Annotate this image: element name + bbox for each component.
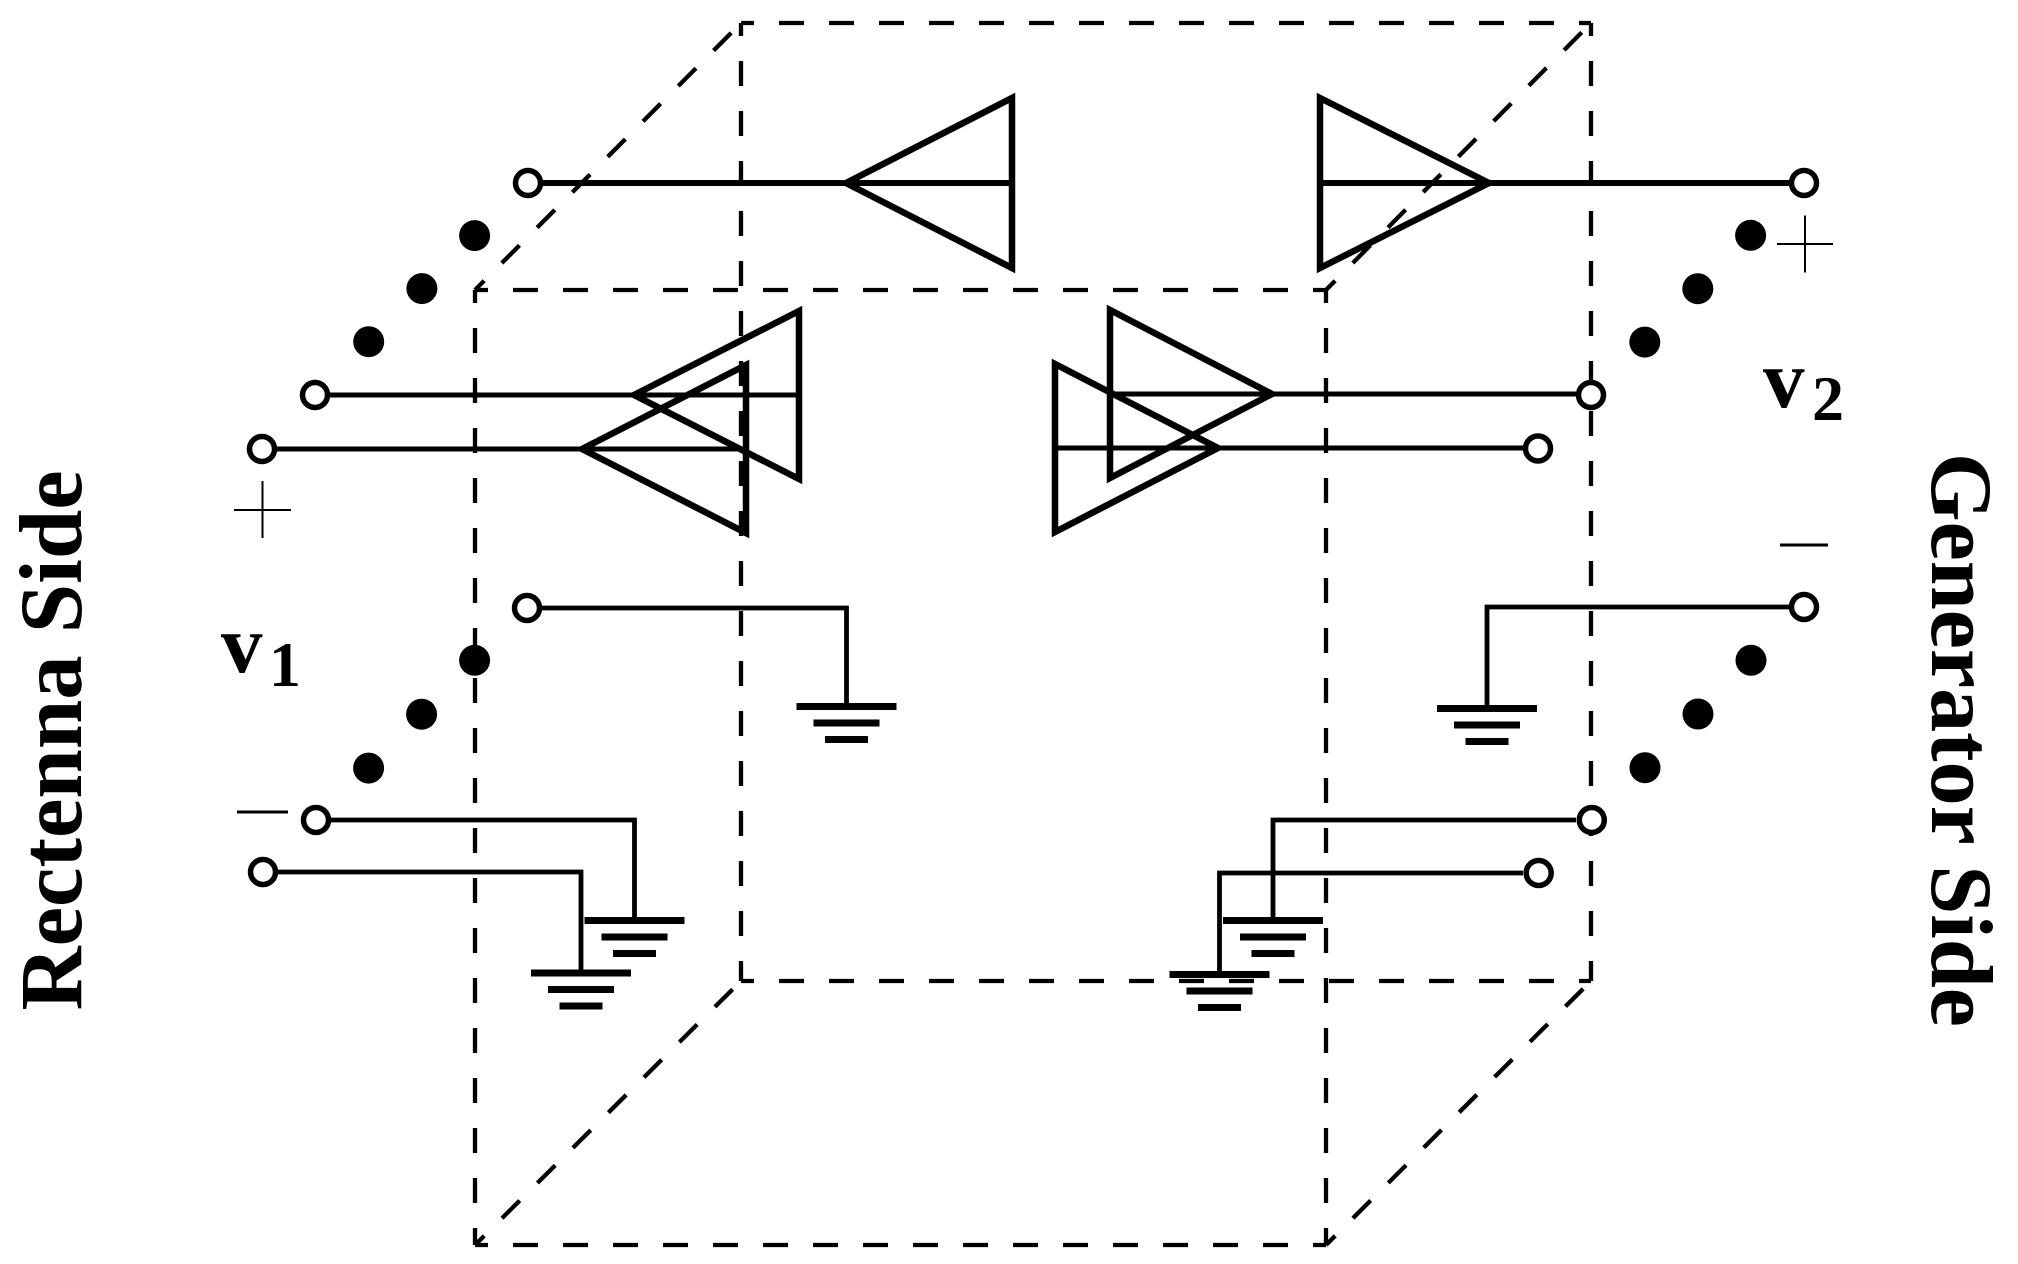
ground (bottom left inner)	[531, 970, 631, 1010]
svg-text:1: 1	[269, 629, 301, 700]
continuation dots: left bottom	[353, 645, 490, 784]
label: + (v2 positive)	[1777, 216, 1833, 273]
wire: bottom right inner	[1220, 873, 1524, 971]
terminal: bottom right inner	[1526, 861, 1551, 886]
ground (bottom right outer)	[1223, 917, 1323, 957]
svg-text:2: 2	[1812, 363, 1844, 434]
buffer A6 (middle right lower, points right)	[1055, 364, 1218, 532]
dashed box edge: top-left diagonal	[475, 23, 741, 290]
label: - (v1 negative)	[237, 811, 288, 814]
label: - (v2 negative)	[1780, 544, 1828, 547]
wire: top row right	[1320, 180, 1789, 186]
ground (right inner)	[1437, 705, 1537, 745]
ground (left inner)	[797, 703, 897, 743]
wire: left ground feed	[542, 608, 847, 703]
terminal: top right (+ of v2)	[1792, 171, 1817, 196]
continuation dots: left top	[353, 220, 490, 357]
dashed box edge: top-right diagonal	[1326, 23, 1591, 290]
wire: middle row upper left	[330, 393, 799, 398]
dashed box edge: front right	[1324, 290, 1328, 1245]
label: + (v1 positive)	[234, 481, 291, 538]
continuation dots: right top	[1629, 220, 1766, 358]
dashed box edge: bottom-left diagonal	[475, 981, 741, 1245]
terminal: middle left lower	[250, 437, 275, 462]
wire: middle row lower right	[1055, 446, 1523, 451]
dashed box edge: front bottom	[475, 1243, 1326, 1247]
dashed box edge: back right	[1589, 23, 1593, 981]
buffer A4 (middle left lower, points left)	[582, 365, 746, 533]
dashed box edge: back left	[739, 23, 743, 981]
terminal: top left	[516, 171, 541, 196]
dashed box edge: front left	[473, 290, 477, 1245]
label: v1	[221, 598, 301, 700]
dashed box edge: bottom-right diagonal	[1326, 981, 1591, 1245]
terminal: left ground row	[515, 596, 540, 621]
ground (bottom right inner)	[1170, 971, 1270, 1011]
label: v2	[1763, 333, 1844, 434]
svg-text:v: v	[1763, 333, 1805, 425]
terminal: bottom right outer	[1579, 808, 1604, 833]
wire: middle row lower left	[277, 447, 746, 452]
buffer A5 (middle right upper, points right)	[1110, 310, 1272, 478]
wire: right ground feed	[1487, 607, 1789, 705]
terminal: bottom left inner	[251, 860, 276, 885]
buffer A1 (top left, points left)	[846, 98, 1012, 268]
dashed box edge: back top	[741, 21, 1591, 25]
dashed box edge: front top	[475, 288, 1326, 292]
svg-text:Generator Side: Generator Side	[1912, 453, 2010, 1027]
terminal: right ground row (- of v2)	[1792, 595, 1817, 620]
dashed box edge: back bottom	[741, 979, 1591, 983]
terminal: bottom left outer (- of v1)	[304, 808, 329, 833]
svg-text:v: v	[221, 598, 263, 690]
terminal: middle right upper	[1579, 383, 1604, 408]
wire: bottom right outer	[1273, 820, 1576, 917]
svg-text:Rectenna Side: Rectenna Side	[3, 470, 101, 1010]
wire: middle row upper right	[1110, 392, 1576, 397]
terminal: middle left upper (+ of v1)	[303, 383, 328, 408]
terminal: middle right lower	[1526, 436, 1551, 461]
wire: top row left	[543, 180, 1012, 186]
buffer A2 (top right, points right)	[1320, 98, 1489, 268]
wire: bottom left inner	[278, 872, 581, 970]
continuation dots: right bottom	[1630, 645, 1767, 783]
wire: bottom left outer	[331, 820, 635, 917]
ground (bottom left outer)	[585, 917, 685, 957]
buffer A3 (middle left upper, points left)	[634, 311, 799, 479]
